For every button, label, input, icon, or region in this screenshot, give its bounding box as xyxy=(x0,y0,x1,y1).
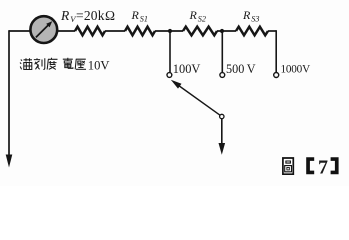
label RV = 20k ohm xyxy=(60,8,115,24)
label RS1 xyxy=(131,8,148,23)
left terminal arrow xyxy=(6,155,13,168)
resistor RS1 xyxy=(125,27,155,36)
svg-text:10V: 10V xyxy=(88,59,110,73)
meter M1 xyxy=(30,16,57,43)
svg-text:S1: S1 xyxy=(140,14,148,23)
wire left vertical xyxy=(8,30,10,155)
wire right vertical down to 1000V terminal xyxy=(275,30,277,72)
char KE xyxy=(34,58,45,69)
svg-text:1000V: 1000V xyxy=(281,64,311,76)
label RS3 xyxy=(242,8,259,23)
label RS2 xyxy=(189,8,206,23)
wire node A down to 100V terminal xyxy=(169,31,171,72)
wire meter to RV xyxy=(58,30,76,32)
svg-text:7: 7 xyxy=(318,157,328,179)
char DU xyxy=(47,58,57,70)
terminal 500V xyxy=(220,73,225,78)
terminal 1000V xyxy=(274,73,279,78)
char YA xyxy=(75,59,86,69)
switch pivot xyxy=(220,114,224,118)
char DIAN xyxy=(63,58,73,69)
svg-text:R: R xyxy=(242,8,251,22)
switch arm arrowhead xyxy=(171,80,182,89)
terminal 100V xyxy=(167,73,172,78)
figure caption TU glyph xyxy=(283,158,293,174)
svg-text:R: R xyxy=(189,8,198,22)
switch arm wiper xyxy=(177,84,221,115)
resistor RS2 xyxy=(183,27,217,36)
wire node B down to 500V terminal xyxy=(221,31,223,72)
node B junction xyxy=(220,29,224,33)
resistor RV xyxy=(75,27,105,36)
svg-text:=20k: =20k xyxy=(76,8,105,23)
svg-text:S3: S3 xyxy=(251,14,259,23)
svg-text:R: R xyxy=(131,8,140,22)
wire RV to RS1 xyxy=(105,30,125,32)
caption bracket right xyxy=(331,157,339,174)
label full-scale voltage 10V (CJK hand-drawn) xyxy=(20,58,86,70)
svg-text:S2: S2 xyxy=(198,14,206,23)
caption bracket left xyxy=(306,157,314,174)
char MAN xyxy=(20,58,32,69)
wire RS1 to node A xyxy=(155,30,183,32)
svg-text:R: R xyxy=(60,8,70,23)
wire left horizontal xyxy=(9,30,30,32)
wire pivot down xyxy=(221,119,223,143)
bottom terminal arrow xyxy=(219,143,226,155)
svg-text:Ω: Ω xyxy=(105,8,115,23)
svg-text:500 V: 500 V xyxy=(226,62,256,76)
resistor RS3 xyxy=(236,27,268,36)
svg-text:100V: 100V xyxy=(173,62,201,76)
wire RS2 to node B xyxy=(217,30,236,32)
node A junction xyxy=(168,29,172,33)
wire RS3 to right corner xyxy=(268,30,276,32)
